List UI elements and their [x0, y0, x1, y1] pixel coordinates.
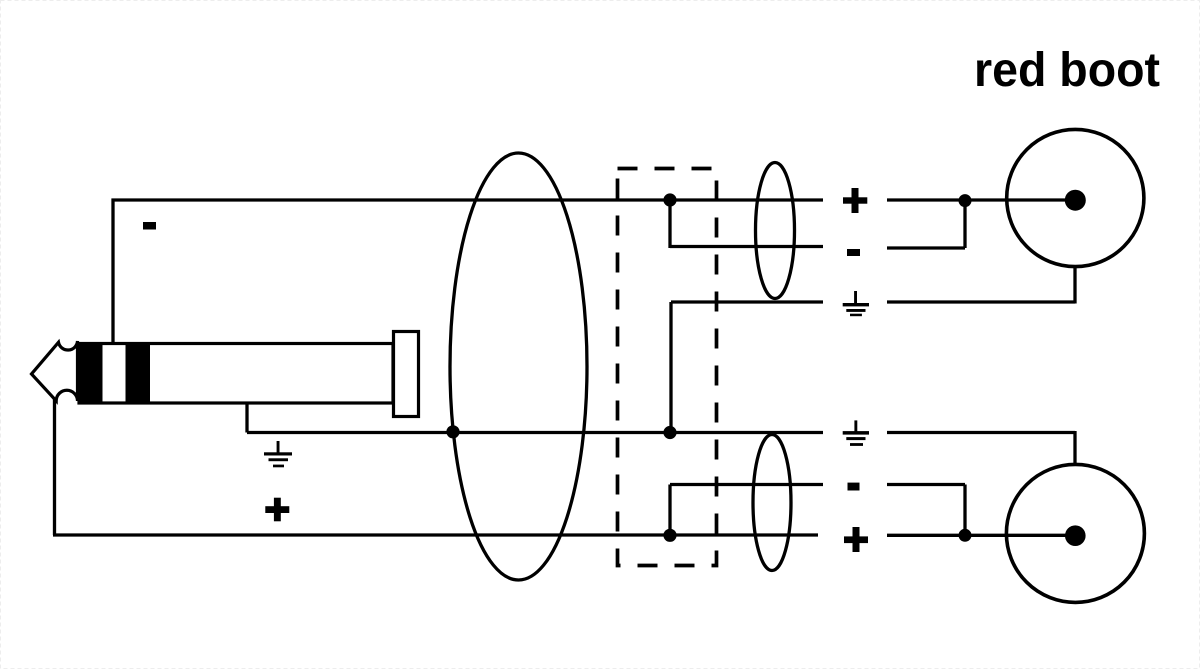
wire: top minus horizontal left segment [670, 245, 823, 248]
TRS jack ring band 1 (black) [78, 342, 103, 405]
wire: bottom plus horizontal left segment [53, 533, 818, 536]
top RCA center pin [1065, 190, 1086, 211]
wire: jack sleeve branch vertical [245, 403, 248, 433]
wire: top minus horizontal right segment [887, 246, 965, 249]
label - (fifth row) [848, 483, 860, 491]
bottom RCA connector shell [1006, 464, 1144, 602]
wire: bottom minus horizontal right segment [887, 483, 965, 486]
wire: top ground vertical to RCA shell [1073, 266, 1076, 304]
cable bundle ellipse (large) [450, 153, 587, 580]
junction dot: top near RCA [959, 194, 972, 207]
TRS jack ring band 2 (black) [126, 342, 151, 405]
junction dot: bottom plus at dashed box [663, 529, 676, 542]
wire: long middle ground horizontal right segment [887, 431, 1075, 434]
wire: top minus vertical up to junction [963, 200, 966, 248]
inner cable ellipse (top) [756, 163, 795, 299]
junction dot: bottom near RCA [959, 529, 972, 542]
junction dot: middle ground at dashed box [663, 426, 676, 439]
wire: tip lead vertical from jack tip down [53, 399, 56, 535]
junction dot: cable shield on big ellipse [446, 425, 459, 438]
wire: top ground riser vertical at x=671 [669, 302, 672, 433]
ground symbol (third row) [843, 291, 869, 316]
svg-text:red boot: red boot [974, 43, 1160, 97]
wire: top ground horizontal left segment [671, 300, 823, 303]
wire: long middle ground horizontal left segment [247, 431, 823, 434]
ground symbol (below jack) [264, 441, 292, 467]
wire: bottom plus horizontal right segment (to bottom RCA center) [887, 534, 1075, 537]
label + (top row) [843, 188, 867, 213]
wire: bottom minus branch vertical at x=670 [668, 485, 671, 536]
bottom RCA center pin [1065, 525, 1086, 546]
wire: stub into top RCA center [1007, 198, 1075, 201]
wire: top signal horizontal (+ label to top RCA center) [887, 198, 1075, 201]
TRS jack plug tip [32, 341, 78, 401]
wire: minus lead vertical from top wire down into jack ring gap [111, 199, 114, 344]
wire: bottom ground vertical to bottom RCA shell [1073, 431, 1076, 466]
wire: bottom minus vertical down to junction [963, 485, 966, 536]
label + (sixth row) [844, 527, 868, 552]
label + (left, below jack) [265, 498, 289, 522]
junction dot: top shield/signal at dashed box [663, 193, 676, 206]
heat-shrink boundary dashed box [618, 169, 717, 566]
wire: top signal horizontal (jack ring to + label) [112, 198, 824, 201]
ground symbol (fourth row) [843, 420, 869, 446]
inner cable ellipse (bottom) [753, 435, 791, 571]
wire: bottom minus horizontal left segment [670, 483, 823, 486]
wire: stub into bottom RCA center [1006, 534, 1075, 537]
wire: top ground horizontal right segment [887, 300, 1075, 303]
wire: top minus branch vertical at x=670 [668, 200, 671, 248]
TRS jack collar [394, 332, 419, 417]
TRS jack body [79, 344, 393, 404]
top RCA connector shell [1007, 129, 1144, 266]
label - (near jack top) [143, 222, 156, 230]
label - (second row) [847, 249, 860, 256]
